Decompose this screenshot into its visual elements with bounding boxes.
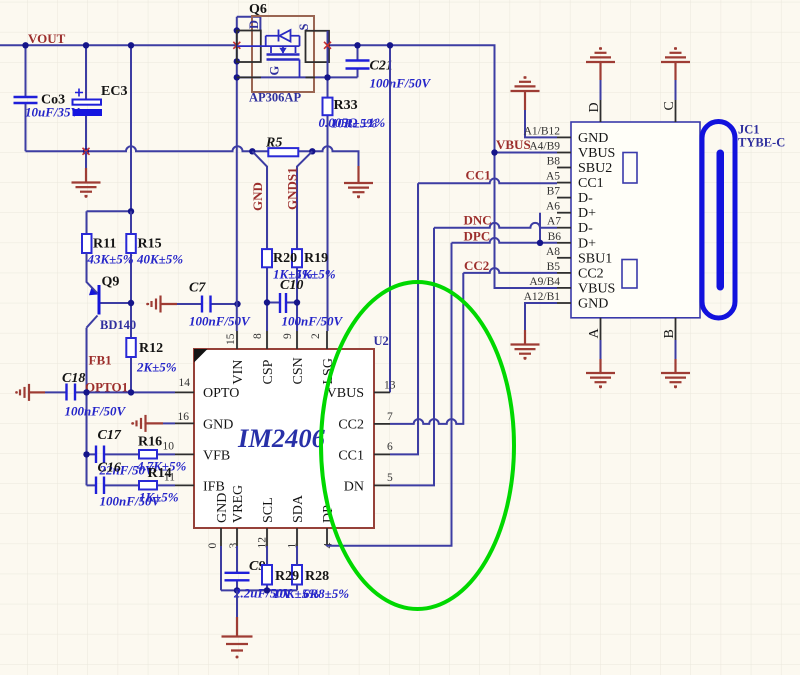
junction VFB row at FB1 column — [83, 451, 89, 457]
wire A6 to B6 link — [539, 213, 541, 243]
ERC marker at Q6 drain — [233, 42, 240, 49]
svg-text:A5: A5 — [546, 171, 560, 183]
svg-text:100nF/50V: 100nF/50V — [370, 76, 432, 91]
wire R28 branch — [296, 546, 298, 590]
pin B5 stub — [557, 272, 571, 274]
wire A1/B12 ground link — [525, 110, 557, 137]
resistor R28 — [292, 565, 302, 585]
capacitor C16 — [96, 477, 104, 495]
svg-text:CSP: CSP — [261, 359, 276, 384]
svg-text:9: 9 — [282, 333, 294, 339]
svg-text:R16: R16 — [138, 435, 162, 450]
svg-text:R11: R11 — [93, 237, 116, 252]
junction OPTO row at FB1 column — [83, 389, 89, 395]
pin A6 stub — [557, 212, 571, 214]
svg-text:R20: R20 — [273, 251, 297, 266]
svg-text:100nF/50V: 100nF/50V — [189, 314, 251, 329]
pad D of Q6 — [237, 31, 261, 63]
svg-text:A12/B1: A12/B1 — [524, 291, 561, 303]
ground symbol below R33 row — [344, 166, 373, 198]
ground symbol below A12/B1 — [511, 330, 540, 360]
svg-text:VREG: VREG — [231, 485, 246, 523]
junction Q6 gate row left — [234, 74, 240, 80]
wire CC2 net row — [463, 268, 557, 273]
resistor R33 column wire — [327, 98, 329, 331]
svg-text:VOUT: VOUT — [28, 31, 66, 46]
svg-text:1K±5%: 1K±5% — [139, 490, 179, 505]
svg-text:R28: R28 — [305, 569, 329, 584]
pin A4/B9 stub — [557, 152, 571, 154]
svg-text:C7: C7 — [189, 281, 206, 296]
wire VFB row — [87, 453, 176, 455]
svg-text:CC2: CC2 — [338, 418, 364, 433]
resistor R5 — [268, 148, 298, 156]
wire pin A down — [600, 340, 602, 359]
svg-text:2K±5%: 2K±5% — [136, 360, 177, 375]
svg-text:10uF/35V: 10uF/35V — [25, 105, 81, 120]
pin 11 IFB stub — [175, 484, 194, 486]
pad S lower stub — [306, 76, 316, 78]
pin A8 stub — [557, 257, 571, 259]
svg-text:IFB: IFB — [203, 480, 225, 495]
svg-text:BD140: BD140 — [100, 318, 136, 332]
IC U2 IM2406 body — [194, 349, 374, 528]
svg-text:AP306AP: AP306AP — [249, 91, 301, 105]
pin D stub (top) — [600, 100, 602, 122]
junction R15 column top — [128, 208, 134, 214]
pin 10 VFB stub — [175, 453, 194, 455]
IC U2 corner triangle — [194, 349, 208, 363]
pin 6 CC1 stub — [374, 453, 390, 455]
wire R11 R15 top branch — [87, 45, 132, 234]
pin 13 VBUS stub — [374, 391, 390, 393]
junction Q6 source column gate row — [324, 74, 330, 80]
wire Q6 source column — [327, 31, 329, 98]
pin 0 GND stub (bottom) — [220, 528, 222, 546]
wire R15 column — [130, 211, 132, 392]
pin 7 CC2 stub — [374, 423, 390, 425]
wire FB1 column (Q9 collector down) — [86, 328, 88, 486]
svg-text:OPTO1: OPTO1 — [85, 380, 128, 395]
svg-text:D-: D- — [578, 191, 593, 206]
wire Q6 gate row y77 — [237, 76, 358, 78]
svg-text:15: 15 — [225, 333, 237, 345]
svg-text:R12: R12 — [139, 341, 163, 356]
junction C10 right — [294, 299, 300, 305]
wire chip ground rail bottom — [221, 546, 297, 590]
svg-text:D: D — [587, 102, 602, 112]
svg-text:5: 5 — [387, 472, 393, 484]
ground symbol below pin B — [661, 359, 690, 388]
junction C21 at rail — [354, 42, 360, 48]
svg-text:8: 8 — [252, 333, 264, 339]
svg-text:A4/B9: A4/B9 — [529, 141, 560, 153]
svg-text:B: B — [662, 329, 677, 338]
svg-text:SDA: SDA — [291, 494, 306, 523]
transistor Q6 body box — [252, 16, 314, 92]
svg-text:IM2406: IM2406 — [237, 423, 326, 453]
pin 9 CSN stub — [296, 331, 298, 349]
svg-text:13: 13 — [384, 380, 396, 392]
svg-text:C17: C17 — [98, 428, 122, 443]
junction C7 at VIN column — [234, 301, 240, 307]
connector JC1 body — [571, 122, 700, 318]
svg-text:A1/B12: A1/B12 — [524, 125, 561, 137]
svg-text:R29: R29 — [275, 569, 299, 584]
wire DPC net row — [452, 238, 558, 243]
wire VIN column (Q6 drain pad down to chip pin 15) — [236, 17, 238, 331]
svg-text:JC1: JC1 — [738, 123, 760, 137]
wire EC3 branch — [85, 45, 87, 151]
ERC marker at EC3 ground junction — [83, 148, 90, 155]
junction Q9 base / R15 — [128, 300, 134, 306]
junction VBUS column at rail — [387, 42, 393, 48]
svg-text:VBUS: VBUS — [578, 146, 615, 161]
pin 1 SDA stub — [296, 528, 298, 546]
pin 14 OPTO stub — [175, 391, 194, 393]
wire DNC net row — [434, 223, 557, 228]
svg-text:OPTO: OPTO — [203, 386, 239, 401]
net VOUT rail wire — [0, 44, 237, 46]
svg-text:SBU1: SBU1 — [578, 251, 612, 266]
ground symbol above A1/B12 (inverted) — [511, 76, 540, 110]
svg-text:C18: C18 — [62, 371, 85, 386]
svg-text:CC1: CC1 — [338, 449, 364, 464]
junction VOUT at R11/R15 branch — [128, 42, 134, 48]
svg-text:A9/B4: A9/B4 — [529, 276, 560, 288]
wire CC1 net row — [418, 178, 557, 183]
junction VOUT at EC3 — [83, 42, 89, 48]
pin 4 DP stub — [326, 528, 328, 546]
capacitor C7 — [202, 296, 211, 313]
wire chip pin7 CC2 row with hops — [390, 273, 463, 424]
wire OPTO row — [45, 391, 175, 393]
wire C9 branch — [236, 546, 238, 590]
svg-text:C10: C10 — [280, 278, 303, 293]
SBU1 block — [622, 260, 637, 289]
svg-text:VFB: VFB — [203, 449, 230, 464]
resistor R19 — [292, 249, 302, 267]
resistor R16 — [139, 450, 157, 459]
ground symbol left of C18 — [15, 384, 45, 401]
capacitor C9 — [225, 573, 250, 581]
pin 16 GND stub — [175, 422, 194, 424]
wire VBUS top rail (Q6 source to connector column) — [328, 45, 557, 288]
junction B6 row — [537, 240, 543, 246]
wire pin16 row — [163, 422, 175, 424]
ERC marker at Q6 source — [324, 42, 331, 49]
wire VBUS branch to pin A4/B9 — [495, 152, 558, 154]
svg-text:100nF/50V: 100nF/50V — [65, 404, 127, 419]
wire Q6 top link — [237, 17, 261, 31]
svg-text:D+: D+ — [578, 206, 596, 221]
junction R5 left — [249, 148, 255, 154]
svg-text:7: 7 — [387, 411, 393, 423]
svg-text:10R±5%: 10R±5% — [331, 116, 377, 131]
svg-text:GND: GND — [203, 418, 233, 433]
svg-text:R19: R19 — [304, 251, 328, 266]
svg-text:40K±5%: 40K±5% — [136, 252, 183, 267]
SBU2 block — [623, 153, 637, 184]
resistor R11 — [82, 234, 92, 253]
svg-text:R15: R15 — [138, 237, 162, 252]
resistor R29 — [262, 565, 272, 585]
capacitor C21 branch wire — [357, 45, 359, 77]
pad S of Q6 — [306, 31, 330, 62]
svg-text:6: 6 — [387, 441, 393, 453]
wire GND sense (CSP column) — [252, 151, 267, 331]
pin B7 stub — [557, 197, 571, 199]
svg-text:VBUS: VBUS — [327, 386, 364, 401]
svg-text:C: C — [662, 101, 677, 110]
capacitor C17 — [96, 446, 104, 464]
pin A12/B1 stub — [557, 302, 571, 304]
wire chip pin6 CC1 column — [390, 183, 418, 454]
pin B6 stub — [557, 242, 571, 244]
wire A12/B1 ground link — [525, 303, 557, 330]
pin 2 LSG stub — [326, 331, 328, 349]
svg-text:R33: R33 — [334, 98, 358, 113]
ground symbol above pin C (inverted) — [661, 47, 690, 80]
wire GND bottom row (Co3/EC3/R5 row) — [26, 146, 359, 166]
svg-text:DPC: DPC — [464, 229, 491, 244]
svg-text:GND: GND — [578, 297, 608, 312]
wire VBUS column to chip pin 13 — [389, 45, 391, 392]
svg-text:16: 16 — [178, 411, 190, 423]
svg-text:Q6: Q6 — [249, 2, 267, 17]
wire pin C up — [675, 80, 677, 100]
svg-text:B7: B7 — [547, 186, 561, 198]
svg-text:VBUS: VBUS — [496, 137, 531, 152]
wire C7 row — [177, 303, 238, 305]
wire C10 row — [267, 302, 297, 304]
pin B stub (bottom) — [675, 318, 677, 340]
ground symbol below EC3 — [72, 151, 101, 198]
ground symbol at chip GND pin 16 — [131, 415, 163, 432]
pin A9/B4 stub — [557, 287, 571, 289]
svg-text:A6: A6 — [546, 201, 560, 213]
svg-text:2: 2 — [310, 333, 322, 339]
svg-text:CC1: CC1 — [466, 168, 491, 183]
svg-text:GNDS1: GNDS1 — [285, 167, 300, 210]
wire GNDS1 sense (CSN column) — [297, 151, 312, 331]
USB receptacle glyph inner bar — [717, 150, 725, 291]
pin A1/B12 stub — [557, 136, 571, 138]
resistor R14 — [139, 481, 157, 490]
svg-text:B8: B8 — [547, 156, 561, 168]
junction R5 right — [309, 148, 315, 154]
svg-text:11: 11 — [164, 472, 175, 484]
svg-text:TYBE-C: TYBE-C — [738, 136, 785, 150]
wire R29 branch — [266, 546, 268, 590]
pin 15 VIN stub — [236, 331, 238, 349]
pin A stub (bottom) — [600, 318, 602, 340]
svg-text:14: 14 — [179, 377, 191, 389]
svg-text:S: S — [297, 24, 311, 31]
svg-text:FB1: FB1 — [89, 353, 112, 368]
svg-text:B6: B6 — [548, 231, 562, 243]
svg-text:10: 10 — [163, 441, 175, 453]
ground symbol below C9 rail — [222, 590, 253, 658]
svg-text:DNC: DNC — [464, 213, 492, 228]
wire pin B down — [675, 340, 677, 359]
capacitor C21 — [346, 61, 370, 69]
capacitor C18 — [67, 384, 76, 401]
svg-text:CC2: CC2 — [464, 258, 489, 273]
pad D lower stub — [237, 76, 261, 78]
wire pin D up — [600, 80, 602, 100]
junction C10 left — [264, 299, 270, 305]
svg-text:R5: R5 — [265, 136, 282, 151]
svg-text:D: D — [247, 20, 261, 29]
svg-text:3: 3 — [228, 543, 240, 549]
mosfet Q6 internal symbol — [237, 30, 300, 78]
capacitor EC3 polarized — [73, 89, 103, 117]
svg-text:DN: DN — [344, 480, 364, 495]
svg-text:0: 0 — [207, 543, 219, 549]
junction Q6 drain pad top — [234, 27, 240, 33]
junction Q6 drain pad bottom — [234, 58, 240, 64]
pin C stub (top) — [675, 100, 677, 122]
ground symbol above pin D (inverted) — [586, 47, 615, 80]
svg-text:D-: D- — [578, 221, 593, 236]
capacitor Co3 — [14, 97, 38, 103]
USB receptacle glyph outer — [702, 122, 735, 319]
pin A7 stub — [557, 227, 571, 229]
svg-text:G: G — [268, 66, 282, 76]
junction OPTO row at R12 — [128, 389, 134, 395]
junction R29 at bottom rail — [264, 587, 270, 593]
svg-text:VBUS: VBUS — [578, 281, 615, 296]
capacitor C10 — [280, 293, 286, 313]
svg-text:GND: GND — [215, 493, 230, 523]
svg-text:SBU2: SBU2 — [578, 161, 612, 176]
pin B8 stub — [557, 167, 571, 169]
svg-text:VIN: VIN — [231, 360, 246, 385]
pin 5 DN stub — [374, 484, 390, 486]
wire Co3 branch — [25, 45, 27, 151]
transistor Q9 BD140 — [87, 253, 132, 328]
ground symbol below pin A — [586, 359, 615, 388]
svg-text:B5: B5 — [547, 261, 561, 273]
resistor R15 — [126, 234, 136, 253]
junction bottom row at EC3 — [83, 148, 89, 154]
svg-text:GND: GND — [578, 131, 608, 146]
svg-text:CSN: CSN — [291, 357, 306, 384]
svg-text:GND: GND — [250, 182, 265, 211]
svg-text:100nF/50V: 100nF/50V — [282, 314, 344, 329]
resistor R33 — [323, 98, 333, 116]
pin 3 VREG stub — [236, 528, 238, 546]
svg-text:6R8±5%: 6R8±5% — [303, 586, 349, 601]
junction C9 at bottom rail — [234, 587, 240, 593]
svg-text:D+: D+ — [578, 236, 596, 251]
svg-text:U2: U2 — [374, 334, 389, 348]
svg-text:Q9: Q9 — [102, 275, 120, 290]
junction VBUS column at A4/B9 — [491, 149, 497, 155]
junction VOUT at Co3 — [22, 42, 28, 48]
resistor R20 — [262, 249, 272, 267]
svg-text:A: A — [587, 328, 602, 339]
wire IFB row — [87, 484, 176, 486]
svg-text:A8: A8 — [546, 246, 560, 258]
svg-text:CC2: CC2 — [578, 266, 604, 281]
ground symbol left of C7 — [146, 296, 177, 313]
resistor R12 — [126, 338, 136, 357]
svg-text:C16: C16 — [98, 461, 121, 476]
highlight ellipse (green) — [321, 282, 514, 609]
pin 8 CSP stub — [266, 331, 268, 349]
svg-text:CC1: CC1 — [578, 176, 604, 191]
pin A5 stub — [557, 182, 571, 184]
pin 12 SCL stub — [266, 528, 268, 546]
svg-text:A7: A7 — [547, 216, 561, 228]
svg-text:EC3: EC3 — [101, 84, 127, 99]
svg-text:SCL: SCL — [261, 497, 276, 523]
wire chip pin4 DP route — [327, 243, 452, 546]
wire chip pin5 DN column — [390, 228, 434, 486]
